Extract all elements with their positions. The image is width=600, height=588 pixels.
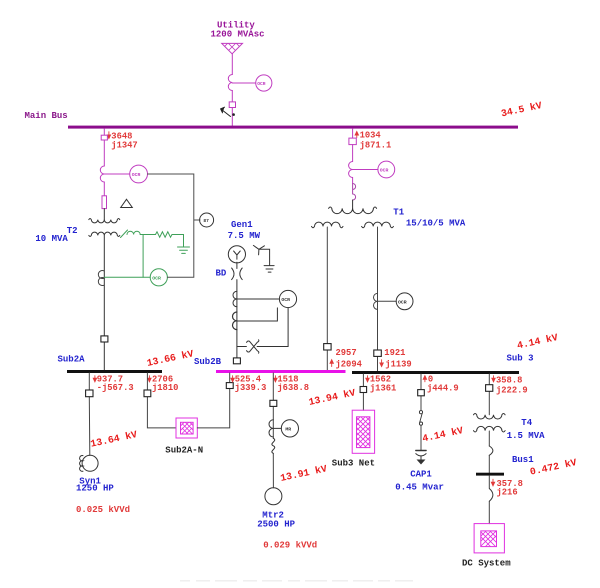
svg-text:j638.8: j638.8 bbox=[277, 383, 309, 393]
svg-text:0.029 kVVd: 0.029 kVVd bbox=[263, 541, 317, 551]
synchronous motor Syn1 bbox=[82, 455, 98, 471]
svg-text:1.5 MVA: 1.5 MVA bbox=[507, 431, 545, 441]
wire fuse to transformer bbox=[103, 209, 105, 220]
bus Bus1 bbox=[476, 473, 504, 476]
wire Sub2A to Syn1 breaker bbox=[88, 373, 91, 455]
transformer T1 primary winding bbox=[329, 207, 377, 214]
CT (gen upper) bbox=[233, 291, 237, 307]
CT (T2 secondary) bbox=[98, 271, 104, 286]
flow value 1518 j638.8 with down arrow bbox=[274, 376, 277, 382]
flow value 525.4 j339.3 with down arrow bbox=[231, 376, 234, 382]
svg-text:13.94 kV: 13.94 kV bbox=[308, 387, 357, 408]
wire switch to T1 bbox=[352, 200, 354, 209]
flow arrow up at T1 feeder bbox=[355, 132, 358, 138]
svg-text:BD: BD bbox=[216, 269, 227, 279]
bus Sub2A bbox=[67, 370, 162, 373]
svg-text:j216: j216 bbox=[497, 487, 518, 497]
breaker CB (T2 primary) bbox=[101, 135, 107, 140]
svg-text:1034: 1034 bbox=[360, 131, 382, 141]
transformer T4 primary winding bbox=[474, 413, 506, 419]
wire Sub2B to Mtr2 bbox=[272, 373, 274, 488]
svg-text:j871.1: j871.1 bbox=[360, 140, 392, 150]
svg-text:j222.9: j222.9 bbox=[496, 386, 528, 396]
generator Gen1 circle bbox=[228, 246, 245, 263]
wire utility to CT bbox=[231, 54, 233, 75]
wire CT to OCR (T1 sec) bbox=[378, 300, 397, 302]
generator grounding (neutral) bbox=[253, 245, 274, 272]
wire T2 secondary down to Sub2A bbox=[103, 236, 105, 370]
ground switch X symbol and wiring bbox=[237, 308, 288, 347]
flow value 2706 j1810 with down arrow bbox=[148, 376, 151, 382]
transformer T1 secondary winding left bbox=[312, 222, 344, 228]
svg-text:Sub2A-N: Sub2A-N bbox=[165, 445, 203, 455]
breaker (T1 primary) bbox=[349, 138, 356, 145]
svg-text:-j567.3: -j567.3 bbox=[97, 383, 134, 393]
load DC System (crosshatched box) bbox=[474, 514, 504, 556]
svg-text:7.5 MW: 7.5 MW bbox=[228, 231, 261, 241]
flow value 358.8 j222.9 with down arrow bbox=[492, 376, 495, 382]
CT (T1) bbox=[349, 162, 353, 178]
wire CT to OCR (gen) bbox=[237, 298, 280, 300]
svg-text:j1139: j1139 bbox=[385, 359, 411, 369]
breaker (Syn1) bbox=[86, 390, 93, 397]
svg-text:2957: 2957 bbox=[336, 348, 357, 358]
svg-text:2500 HP: 2500 HP bbox=[257, 519, 295, 529]
svg-text:MR: MR bbox=[285, 427, 291, 433]
breaker (T1 sec left) bbox=[324, 344, 331, 350]
svg-text:T4: T4 bbox=[521, 418, 532, 428]
svg-text:Sub 3: Sub 3 bbox=[507, 354, 534, 364]
breaker (utility, open square) bbox=[229, 102, 235, 108]
wire breaker to CT (T1) bbox=[352, 145, 354, 162]
svg-text:1921: 1921 bbox=[384, 348, 405, 358]
svg-text:Sub3 Net: Sub3 Net bbox=[332, 459, 375, 469]
svg-text:13.91 kV: 13.91 kV bbox=[279, 463, 328, 484]
bus Sub2B bbox=[216, 370, 346, 373]
wire gen to BD bbox=[236, 262, 238, 358]
svg-text:T2: T2 bbox=[67, 226, 78, 236]
wire CT to MR relay bbox=[273, 427, 281, 429]
breaker (Sub2A tie) bbox=[144, 390, 151, 397]
svg-text:OCR: OCR bbox=[281, 297, 290, 303]
CT (T2) two arcs bbox=[100, 166, 104, 182]
wire T1 right secondary to Sub 3 bbox=[377, 227, 379, 371]
svg-text:0.472 kV: 0.472 kV bbox=[529, 457, 578, 478]
wire lower CT loop to OCR bbox=[237, 308, 278, 321]
footer caption (faint) bbox=[180, 580, 413, 582]
utility source symbol (crosshatched triangle) bbox=[216, 37, 248, 61]
flow arrow down at T2 feeder bbox=[107, 132, 110, 139]
breaker (Mtr2) bbox=[270, 400, 277, 406]
svg-text:1250 HP: 1250 HP bbox=[76, 484, 114, 494]
svg-text:OCR: OCR bbox=[152, 276, 161, 282]
wire breaker to CT bbox=[103, 140, 105, 166]
flow value 1562 j1361 with down arrow bbox=[366, 376, 369, 382]
wire Bus1 down bbox=[488, 476, 490, 524]
wire CT to OCR (T1) bbox=[353, 169, 378, 171]
switch (black blade with arrow) bbox=[221, 107, 235, 116]
flow value 937.7 -j567.3 with down arrow bbox=[93, 376, 96, 382]
svg-text:13.66 kV: 13.66 kV bbox=[146, 348, 195, 369]
wire breaker to main bus bbox=[231, 108, 233, 126]
relay OCR (T1 secondary) bbox=[396, 293, 413, 310]
wire main bus to breaker (T1) bbox=[352, 129, 354, 139]
svg-text:j444.9: j444.9 bbox=[427, 384, 459, 394]
relay MR bbox=[281, 420, 298, 437]
svg-text:j1361: j1361 bbox=[370, 384, 396, 394]
svg-text:4.14 kV: 4.14 kV bbox=[516, 332, 559, 351]
transformer T1 secondary winding right bbox=[362, 222, 394, 228]
bus Main Bus bbox=[68, 126, 518, 129]
relay OCR (T1) bbox=[378, 161, 395, 178]
breaker (T1 sec right) bbox=[374, 350, 382, 356]
svg-text:Sub2A: Sub2A bbox=[58, 355, 86, 365]
fuse (T4 secondary) bbox=[489, 446, 493, 455]
svg-text:10 MVA: 10 MVA bbox=[35, 234, 68, 244]
wire T1 left secondary to Sub2B bbox=[326, 227, 328, 370]
wire CT to breaker bbox=[231, 91, 233, 102]
network Sub2A-N (crosshatched box) bbox=[176, 410, 198, 444]
wire Sub 3 to CAP1 bbox=[420, 374, 422, 450]
capacitor CAP1 symbol bbox=[416, 450, 426, 452]
wire main bus to breaker bbox=[103, 129, 105, 136]
svg-text:OCR: OCR bbox=[132, 172, 141, 178]
svg-text:0.45 Mvar: 0.45 Mvar bbox=[395, 483, 444, 493]
wire T4 to fuse bbox=[488, 431, 490, 446]
relay OCR (gen) bbox=[279, 290, 296, 307]
CT (Mtr2) bbox=[269, 420, 273, 437]
svg-text:OCR: OCR bbox=[398, 300, 407, 306]
fuse (DC feed) bbox=[489, 489, 493, 502]
svg-text:j1810: j1810 bbox=[152, 383, 178, 393]
wire CT to relay OCR bbox=[232, 82, 255, 84]
transformer T2 secondary winding bbox=[89, 232, 120, 236]
disconnect switch (two contacts) bbox=[419, 411, 422, 414]
transformer T4 secondary winding bbox=[474, 426, 506, 432]
svg-text:4.14 kV: 4.14 kV bbox=[421, 425, 464, 444]
svg-text:15/10/5 MVA: 15/10/5 MVA bbox=[406, 218, 466, 228]
relay OCR (utility) bbox=[256, 75, 272, 91]
svg-text:358.8: 358.8 bbox=[496, 376, 522, 386]
cable (squiggle) bbox=[272, 438, 275, 453]
CT (utility) two arcs bbox=[228, 75, 232, 91]
breaker (T4) bbox=[486, 385, 493, 392]
svg-text:j1347: j1347 bbox=[111, 141, 137, 151]
grounding resistor circuit (green) bbox=[104, 230, 189, 277]
flow value 357.8 j216 with down arrow bbox=[491, 479, 494, 486]
CT (gen lower) bbox=[232, 312, 236, 330]
svg-text:Sub2B: Sub2B bbox=[194, 357, 222, 367]
wire fuse to Bus1 bbox=[488, 455, 490, 472]
svg-text:0.025 kVVd: 0.025 kVVd bbox=[76, 505, 130, 515]
transformer T2 primary winding bbox=[89, 218, 120, 222]
wire Sub2A-N to Sub2B bbox=[197, 373, 229, 428]
svg-text:Bus1: Bus1 bbox=[512, 455, 534, 465]
breaker (CAP1) bbox=[418, 390, 425, 396]
breaker (T2 to Sub2A) bbox=[101, 336, 108, 342]
network Sub3 Net (crosshatched box) bbox=[350, 400, 376, 467]
breaker (Sub2B tie) bbox=[226, 383, 233, 389]
wire Sub2A down to Sub2A-N bbox=[147, 373, 176, 428]
svg-text:OCR: OCR bbox=[257, 81, 266, 87]
wire CT to relay OCR (T2) bbox=[104, 173, 129, 175]
relay OCR (T2 ground, green) bbox=[150, 269, 167, 286]
svg-text:DC System: DC System bbox=[462, 559, 511, 569]
svg-text:CAP1: CAP1 bbox=[410, 470, 432, 480]
svg-text:Main Bus: Main Bus bbox=[25, 111, 68, 121]
svg-text:34.5 kV: 34.5 kV bbox=[500, 100, 543, 119]
svg-text:OCR: OCR bbox=[380, 168, 389, 174]
relay wiring loop (gray) bbox=[148, 174, 201, 277]
wire CT to fuse bbox=[103, 182, 105, 196]
svg-text:j339.3: j339.3 bbox=[235, 383, 267, 393]
CT (T1 right secondary) bbox=[374, 293, 378, 309]
svg-text:j2094: j2094 bbox=[336, 359, 363, 369]
breaker (gen to Sub2B) bbox=[233, 358, 240, 364]
svg-text:87: 87 bbox=[203, 218, 209, 224]
svg-text:Gen1: Gen1 bbox=[231, 220, 253, 230]
relay OCR (T2 primary) bbox=[130, 165, 148, 183]
svg-text:13.64 kV: 13.64 kV bbox=[90, 429, 139, 450]
fuse (T2) bbox=[102, 196, 107, 209]
delta winding symbol bbox=[121, 199, 133, 207]
induction motor Mtr2 bbox=[265, 488, 282, 505]
svg-text:T1: T1 bbox=[393, 208, 404, 218]
svg-text:1200 MVAsc: 1200 MVAsc bbox=[211, 29, 265, 39]
wire Sub 3 to T4 bbox=[488, 374, 490, 415]
flow value 0 j444.9 with up arrow bbox=[423, 376, 426, 382]
wire CT down with load break switch marks bbox=[352, 178, 354, 184]
bus Sub 3 bbox=[352, 371, 519, 374]
relay 87 (differential) bbox=[200, 213, 214, 227]
breaker (Sub3 Net) bbox=[360, 387, 367, 393]
wire Sub 3 to Sub3 Net bbox=[362, 374, 364, 410]
